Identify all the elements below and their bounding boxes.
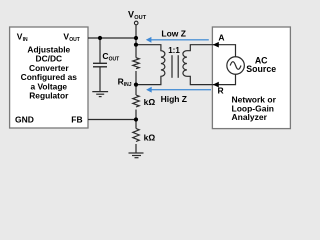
- svg-text:Low Z: Low Z: [161, 28, 186, 38]
- svg-text:High Z: High Z: [161, 94, 187, 104]
- svg-text:Source: Source: [246, 64, 276, 74]
- svg-text:OUT: OUT: [69, 37, 80, 43]
- svg-text:INJ: INJ: [124, 82, 132, 88]
- svg-text:R: R: [218, 85, 224, 95]
- svg-text:V: V: [128, 9, 134, 19]
- svg-text:Analyzer: Analyzer: [232, 112, 268, 122]
- svg-text:Regulator: Regulator: [29, 91, 69, 101]
- svg-text:kΩ: kΩ: [144, 97, 156, 107]
- svg-text:OUT: OUT: [109, 57, 120, 63]
- svg-text:1:1: 1:1: [168, 46, 180, 55]
- svg-text:A: A: [218, 32, 224, 42]
- svg-text:OUT: OUT: [134, 15, 146, 21]
- svg-text:IN: IN: [23, 37, 28, 43]
- svg-text:kΩ: kΩ: [144, 133, 156, 143]
- svg-text:FB: FB: [71, 114, 82, 124]
- svg-text:GND: GND: [15, 114, 34, 124]
